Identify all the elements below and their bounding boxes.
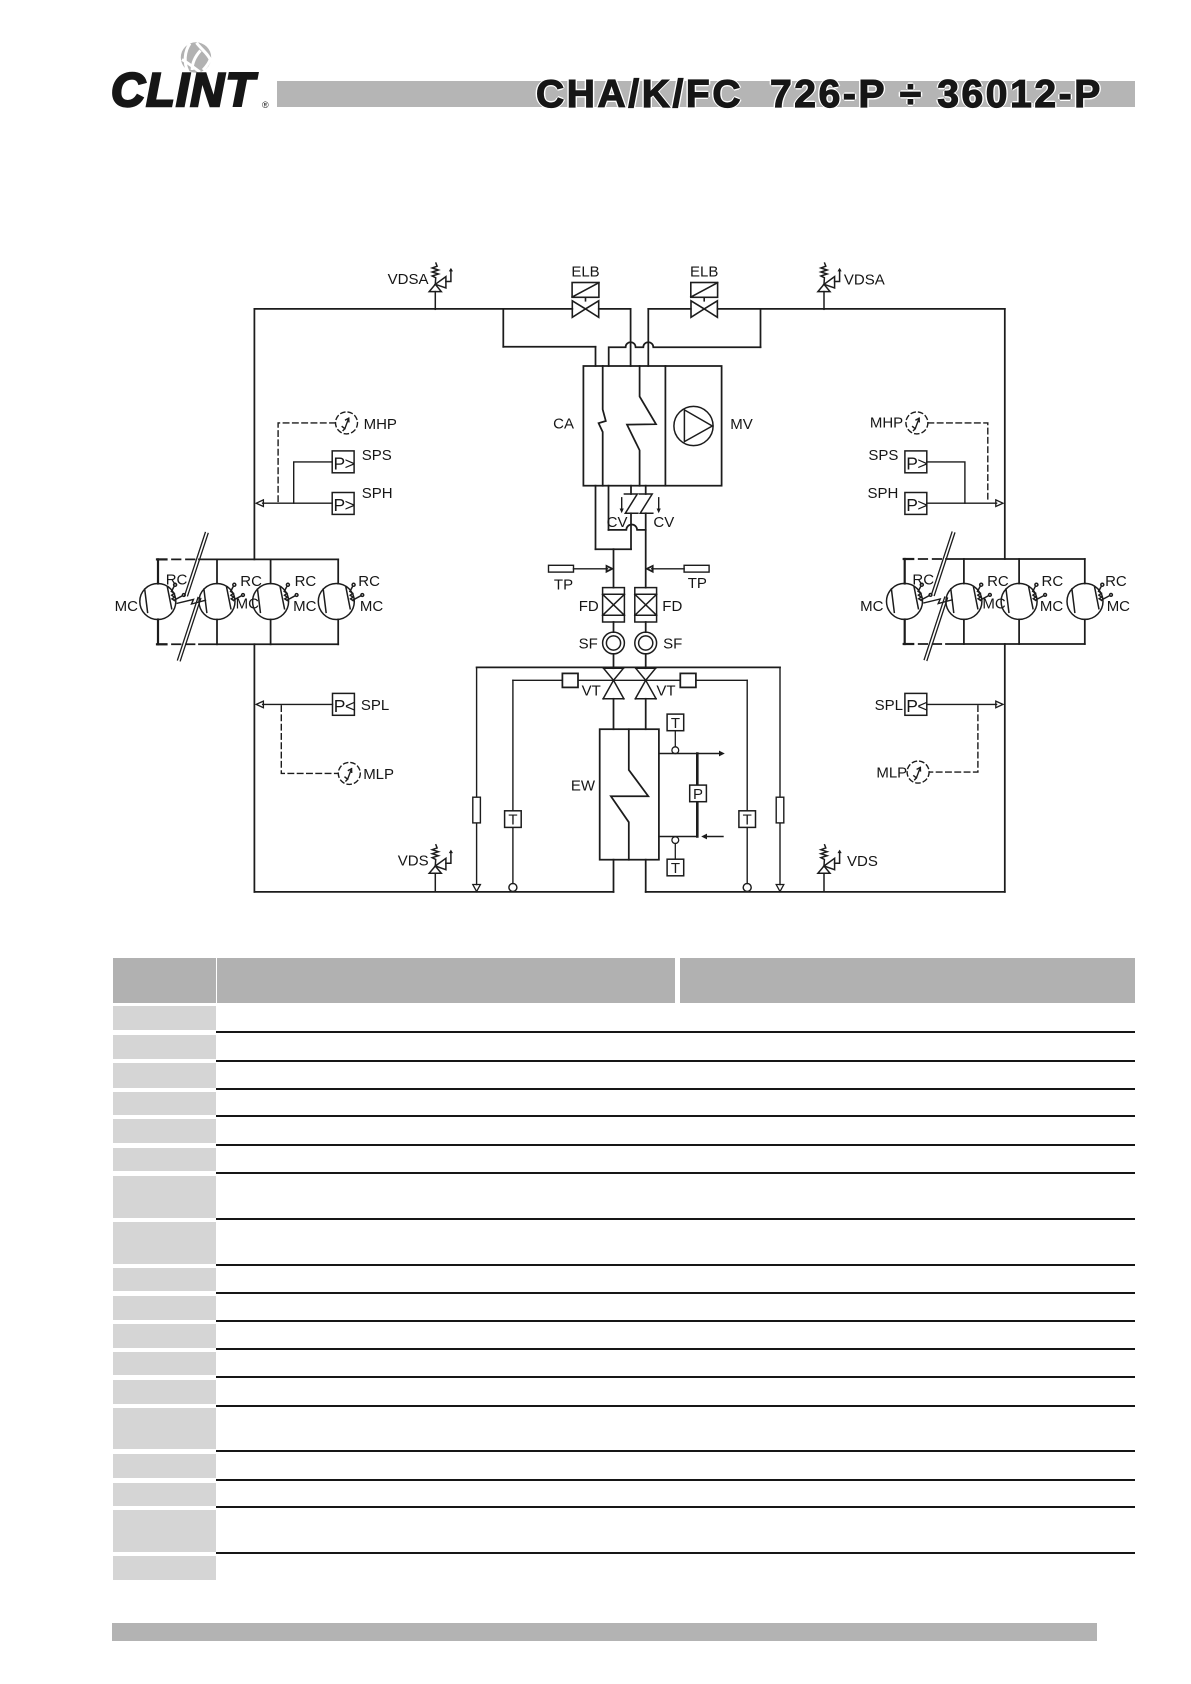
- svg-text:SF: SF: [579, 636, 598, 653]
- svg-text:EW: EW: [571, 778, 596, 795]
- svg-text:P>: P>: [906, 453, 927, 473]
- svg-text:MC: MC: [236, 596, 259, 613]
- svg-text:P: P: [693, 786, 703, 803]
- svg-text:CLINT: CLINT: [111, 63, 258, 116]
- svg-text:P<: P<: [906, 696, 927, 716]
- svg-text:RC: RC: [1042, 573, 1064, 590]
- svg-text:CV: CV: [653, 514, 674, 531]
- svg-text:MC: MC: [115, 598, 138, 615]
- svg-text:CV: CV: [607, 514, 628, 531]
- svg-text:P>: P>: [334, 495, 355, 515]
- svg-text:VDS: VDS: [398, 852, 429, 869]
- svg-text:VDSA: VDSA: [844, 272, 885, 289]
- svg-text:CA: CA: [553, 415, 574, 432]
- svg-text:TP: TP: [554, 577, 573, 594]
- svg-text:MC: MC: [982, 596, 1005, 613]
- svg-text:MHP: MHP: [870, 414, 903, 431]
- svg-text:RC: RC: [240, 573, 262, 590]
- svg-text:RC: RC: [166, 571, 188, 588]
- svg-text:MV: MV: [730, 416, 753, 433]
- svg-text:SPH: SPH: [868, 485, 899, 502]
- svg-text:RC: RC: [987, 573, 1009, 590]
- svg-text:VDSA: VDSA: [388, 271, 429, 288]
- svg-text:MC: MC: [293, 598, 316, 615]
- svg-text:VT: VT: [656, 683, 675, 700]
- svg-text:TP: TP: [688, 575, 707, 592]
- svg-text:MLP: MLP: [876, 764, 907, 781]
- svg-text:FD: FD: [662, 598, 682, 615]
- svg-text:P>: P>: [906, 495, 927, 515]
- svg-text:VDS: VDS: [847, 853, 878, 870]
- svg-text:FD: FD: [579, 598, 599, 615]
- svg-text:RC: RC: [295, 573, 317, 590]
- svg-text:SPS: SPS: [362, 447, 392, 464]
- svg-text:SF: SF: [663, 636, 682, 653]
- svg-text:ELB: ELB: [690, 264, 718, 281]
- svg-text:MLP: MLP: [363, 766, 394, 783]
- svg-text:SPH: SPH: [362, 485, 393, 502]
- svg-text:P<: P<: [334, 696, 355, 716]
- svg-text:SPL: SPL: [875, 697, 903, 714]
- svg-text:MHP: MHP: [364, 416, 397, 433]
- svg-text:MC: MC: [1107, 598, 1130, 615]
- svg-text:RC: RC: [1105, 573, 1127, 590]
- svg-text:VT: VT: [582, 683, 601, 700]
- svg-text:MC: MC: [860, 598, 883, 615]
- svg-text:SPS: SPS: [868, 447, 898, 464]
- svg-text:P>: P>: [334, 453, 355, 473]
- svg-text:MC: MC: [360, 598, 383, 615]
- svg-text:ELB: ELB: [571, 264, 599, 281]
- svg-text:SPL: SPL: [361, 697, 389, 714]
- svg-text:RC: RC: [358, 573, 380, 590]
- svg-text:RC: RC: [912, 571, 934, 588]
- svg-text:®: ®: [262, 100, 269, 110]
- svg-text:MC: MC: [1040, 598, 1063, 615]
